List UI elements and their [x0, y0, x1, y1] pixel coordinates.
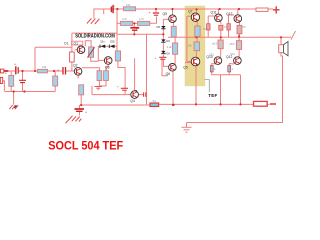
resistor R driver 1 [207, 24, 210, 30]
transistor Q7 (in band) [191, 13, 199, 21]
wire: switch diagonal [291, 31, 296, 40]
svg-text:100: 100 [203, 27, 208, 31]
svg-text:Q3: Q3 [105, 65, 110, 69]
capacitor C top (bootstrap) [111, 5, 116, 13]
wire: black ground stub [13, 92, 15, 105]
resistor R second row right [138, 21, 150, 25]
wire: right long vertical x=146.5 [146, 34, 148, 104]
junction input node [53, 70, 55, 72]
svg-text:10k: 10k [188, 44, 193, 48]
minus terminal [270, 103, 276, 105]
wire: bus extension to bias chain [147, 33, 164, 35]
wire: tall blue resistor column [116, 9, 118, 51]
ground mid-bottom (bars) [182, 127, 192, 132]
transistor Q3 [104, 57, 112, 65]
capacitor C Q4 right [144, 92, 146, 96]
resistor R input series [38, 69, 48, 73]
svg-text:2.2k: 2.2k [167, 45, 173, 49]
junction output rail in band [195, 36, 197, 38]
wire: Q5big base [185, 62, 191, 64]
svg-text:+: + [155, 56, 157, 60]
wire: Q1 base stub [75, 49, 78, 51]
junction shunt cap node [21, 70, 23, 72]
svg-text:D1: D1 [100, 40, 104, 44]
junction Q6 emitter on V- bus [172, 104, 174, 106]
resistor R emitter Q2 col [79, 85, 84, 95]
svg-text:a5.5: a5.5 [230, 42, 236, 46]
transistor Q5 (top, left of band) [169, 15, 177, 23]
resistor bead left [210, 66, 213, 72]
capacitor C bottom-left electrolytic [75, 109, 88, 115]
junction on V+ bus at Q5 [171, 8, 173, 10]
yellow highlight band [185, 6, 206, 87]
svg-text:Q5: Q5 [183, 66, 188, 70]
resistor R second row left [121, 21, 133, 25]
junction resistor row [133, 22, 135, 24]
junction on V+ bus at Q11 [219, 8, 221, 10]
transistor Q12 [234, 57, 242, 65]
resistor R band middle [194, 42, 200, 51]
diode D1 [100, 40, 105, 48]
svg-text:SOLDIRADION.COM: SOLDIRADION.COM [75, 34, 115, 40]
svg-text:Q13: Q13 [226, 12, 233, 16]
wire: R under input node [10, 71, 12, 75]
wire: plus cap under top bus [155, 9, 157, 12]
plus terminal V+ [273, 6, 280, 13]
capacitor C electrolytic mid-top [130, 28, 139, 30]
resistor R emitter Q7 (band) [195, 26, 200, 37]
junction on V+ bus at C bypass [155, 8, 157, 10]
resistor R tall VAS load [115, 51, 120, 61]
wire: mid ground bottom stub [186, 123, 188, 128]
trimmer VR1 [87, 47, 94, 58]
svg-text:Q4: Q4 [130, 99, 135, 103]
diode D2 [109, 40, 114, 48]
speaker LS1 [279, 42, 288, 56]
wire: Q2 links [77, 75, 79, 78]
wire: Q2/Q3 emitter resistors to small ground [99, 81, 106, 86]
wire: feedback line [35, 46, 72, 48]
svg-text:SOCL 504 TEF: SOCL 504 TEF [48, 138, 123, 152]
svg-text:10k: 10k [126, 3, 131, 7]
wire: Q10 Q12 bottoms with beads [211, 64, 213, 66]
ground red slanted bottom-left [66, 116, 82, 123]
junction Q4 collector [135, 90, 137, 92]
junction output rail at speaker [280, 36, 282, 38]
svg-text:5w: 5w [153, 99, 156, 103]
resistor R2 x55 [53, 76, 58, 86]
wire: Q11 col [217, 9, 219, 14]
capacitor C3 shunt [19, 80, 26, 82]
ground chassis left-bottom [9, 105, 18, 110]
wire: Q7 base chain to Q5 big [187, 15, 192, 17]
junction on V+ bus at R column [116, 8, 118, 10]
junction feedback node [34, 70, 36, 72]
wire: left ground bus [5, 91, 55, 93]
svg-text:D1.: D1. [64, 41, 69, 45]
wire: trimmer bottom [91, 57, 99, 61]
diode D7 [161, 51, 170, 56]
wire: cap C mid column [124, 90, 126, 94]
label box Q1 (red outline) [72, 41, 83, 45]
transistor Q1 [77, 46, 85, 54]
junction V- bus at Q5 big [195, 103, 197, 105]
wire: white resistor link [71, 33, 73, 52]
wire: cap under input node2 [22, 71, 24, 80]
svg-text:Q12: Q12 [230, 52, 235, 56]
transistor Q2 [74, 68, 82, 76]
junction output rail at Q11 [220, 36, 222, 38]
junction output rail at Q13 [238, 35, 240, 37]
resistor R driver 2 [227, 24, 230, 30]
svg-text:Q10: Q10 [209, 53, 214, 57]
resistors R emitter pair Q2 Q3 [97, 71, 102, 81]
wire: band resistor to Q5 big [195, 51, 197, 58]
wire: D1 D2 chain [98, 45, 100, 47]
wire: Q5top emitter resistor [172, 9, 174, 15]
svg-text:Q5: Q5 [163, 12, 168, 16]
junction ground bus mid [23, 90, 25, 92]
wire: top positive bus [104, 8, 256, 10]
wire: Q10 Q12 tops [220, 37, 222, 40]
wire: top bus right of fuse to plus terminal [268, 8, 273, 10]
resistor R Q12 top (gray) [236, 41, 241, 50]
transistor Q6 [169, 64, 177, 72]
tiny value labels [5, 3, 246, 75]
svg-text:TEF: TEF [208, 93, 217, 98]
fuse F2 bottom [254, 101, 268, 106]
capacitor C plus small under bus [149, 10, 160, 15]
input connector J1 [0, 69, 3, 73]
svg-text:Q6: Q6 [166, 72, 171, 76]
resistor R emitter Q13 [237, 25, 242, 34]
wire: speaker bottom to bottom-right ground line [187, 53, 283, 123]
svg-text:Q11: Q11 [211, 10, 217, 14]
wire: Q7 top stub [195, 9, 197, 13]
wire: Q3 bottom [106, 65, 108, 71]
wire: input connector lower stub [3, 81, 5, 92]
transistor Q10 [214, 57, 222, 65]
wire: negative bus [82, 104, 151, 106]
junction mid bus [133, 33, 135, 35]
wire: Q4 base line [92, 94, 131, 96]
svg-text:D6: D6 [166, 39, 170, 43]
svg-text:a5.5: a5.5 [212, 42, 218, 46]
junction bias bus / diode chain [162, 33, 164, 35]
junction V- bus at Q6 [173, 104, 175, 106]
svg-text:+: + [14, 63, 16, 67]
wire: output rail y=37.3 [168, 36, 291, 38]
junction V- bus at Q10 [219, 103, 221, 105]
junction on V+ bus at Q7 [196, 8, 198, 10]
wire: Q6 base from cap line up [162, 58, 168, 76]
svg-text:+: + [85, 111, 87, 115]
transistor Q11 [215, 14, 223, 22]
wire: Q4 right cap link [138, 94, 143, 96]
resistor R feedback (white) [70, 52, 75, 62]
wire: Q2 emitter resistor col x=81 [80, 95, 82, 105]
wire: cap to ground bottom left mid [79, 111, 81, 115]
svg-text:+: + [117, 85, 119, 89]
gray leader TEF [205, 80, 210, 93]
svg-text:Q2: Q2 [73, 64, 78, 68]
capacitor C1 input (polar) [14, 63, 18, 75]
capacitor C on bias chain [155, 56, 167, 60]
wire: output rail to switch [238, 30, 240, 37]
svg-text:0.5: 0.5 [224, 25, 228, 29]
wire: upper horizontal link [72, 32, 117, 34]
small ground red mid [95, 87, 103, 90]
resistor R emitter Q5 [171, 26, 176, 37]
junction R column on V- bus [80, 104, 82, 106]
wire: second row resistor links [117, 22, 121, 24]
wire: speaker top drop [280, 37, 282, 44]
resistor R1 input shunt [9, 75, 14, 86]
wire: Q5 bias chain vertical [163, 18, 169, 20]
wire: R x=55 column [54, 71, 56, 76]
svg-text:+: + [136, 27, 138, 31]
diode D5 [157, 25, 166, 29]
svg-text:22k: 22k [42, 65, 47, 69]
input connector lower [0, 78, 2, 84]
svg-text:0.5: 0.5 [242, 25, 246, 29]
junction V- bus at Q12 [239, 103, 241, 105]
resistor R series neg rail [150, 103, 159, 107]
resistor R Q10 top (gray) [218, 40, 223, 49]
resistor R top bus [124, 7, 136, 11]
svg-text:D2: D2 [112, 40, 116, 44]
svg-text:47k: 47k [88, 51, 93, 55]
resistor R emitter Q11 [219, 25, 223, 30]
wire: resistor R bottom rail link [150, 103, 152, 106]
diode D6 [161, 39, 170, 43]
svg-text:4.7k: 4.7k [139, 17, 145, 21]
transistor Q5 (band big) [191, 57, 200, 66]
wire: negative terminal dash link [267, 103, 269, 105]
svg-text:Q7: Q7 [188, 9, 193, 13]
wire: VAS column x=134.4 [134, 58, 136, 91]
svg-text:4.7k: 4.7k [122, 17, 128, 21]
wire: Q1 collector to trimmer [85, 41, 91, 47]
junction ground bus left [13, 90, 15, 92]
wire: driver resistors top-right [207, 16, 209, 24]
fuse F1 top [256, 8, 268, 11]
svg-text:D5: D5 [157, 25, 161, 29]
wire: Q5 big bottom [195, 66, 197, 105]
wire: input line [6, 70, 15, 72]
junction on V+ bus at Q13 [238, 8, 240, 10]
ground top-left (slanted) [87, 18, 100, 24]
capacitor C Miller at Q4 [117, 85, 128, 91]
transistor Q13 [234, 15, 242, 23]
resistor R Q6 collector [173, 43, 178, 54]
wire: Q6 column [174, 37, 176, 43]
transistor Q4 [131, 91, 139, 99]
svg-text:+: + [57, 69, 59, 73]
resistor bead right [228, 66, 231, 72]
capacitor C2 to Q1 base [57, 67, 66, 75]
svg-text:D6: D6 [166, 52, 170, 56]
wire: ground to top cap [94, 9, 111, 19]
wire: Q13 col [237, 9, 239, 15]
